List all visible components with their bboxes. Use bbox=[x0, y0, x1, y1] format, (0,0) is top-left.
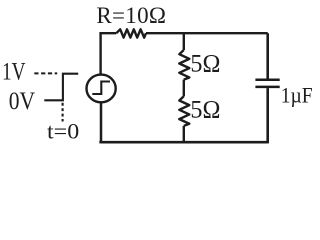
annotation t=0 dotted drop line bbox=[62, 103, 64, 122]
capacitor C1 bottom plate bbox=[255, 86, 279, 89]
source V1 circle bbox=[87, 75, 116, 103]
wire middle branch bottom lead bbox=[183, 126, 185, 142]
svg-text:5Ω: 5Ω bbox=[190, 51, 220, 78]
svg-text:R=10Ω: R=10Ω bbox=[96, 3, 166, 28]
wire right branch upper bbox=[266, 33, 269, 78]
annotation step waveform bbox=[44, 74, 78, 101]
source V1 step glyph bbox=[92, 82, 110, 95]
annotation 1V dashed level bbox=[34, 72, 57, 74]
wire middle branch mid lead bbox=[183, 80, 185, 97]
resistor R1 10 ohm bbox=[116, 29, 146, 37]
capacitor C1 top plate bbox=[255, 78, 279, 81]
svg-text:0V: 0V bbox=[9, 88, 35, 115]
resistor R3 5 ohm lower bbox=[179, 96, 189, 126]
svg-text:t=0: t=0 bbox=[47, 119, 79, 144]
wire top-left segment bbox=[101, 33, 117, 34]
svg-text:1µF: 1µF bbox=[281, 82, 313, 107]
wire left branch lower bbox=[100, 103, 103, 142]
wire top-right segment bbox=[146, 32, 268, 34]
svg-text:5Ω: 5Ω bbox=[190, 97, 220, 124]
resistor R2 5 ohm upper bbox=[179, 50, 189, 80]
svg-text:1V: 1V bbox=[2, 59, 26, 86]
wire bottom bbox=[101, 142, 268, 143]
wire left branch upper bbox=[99, 33, 101, 74]
wire middle branch top lead bbox=[183, 33, 185, 50]
wire right branch lower bbox=[266, 88, 269, 142]
